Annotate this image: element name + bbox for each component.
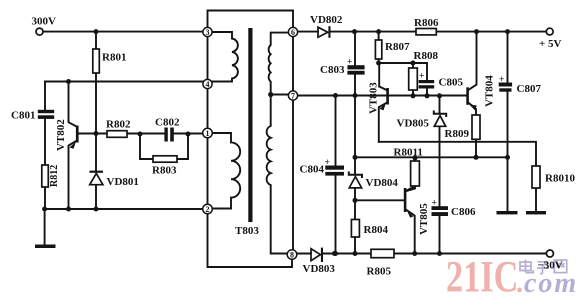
svg-text:3: 3 <box>206 28 210 37</box>
svg-text:C804: C804 <box>300 164 325 176</box>
svg-text:1: 1 <box>206 129 210 138</box>
svg-text:VT804: VT804 <box>484 75 496 107</box>
svg-text:R807: R807 <box>385 41 410 53</box>
svg-text:VD804: VD804 <box>366 177 399 189</box>
svg-text:C805: C805 <box>439 77 464 89</box>
svg-text:+: + <box>325 158 330 168</box>
svg-text:R802: R802 <box>106 119 131 131</box>
svg-text:8: 8 <box>290 251 294 260</box>
svg-text:C807: C807 <box>517 83 542 95</box>
svg-text:+: + <box>347 58 352 68</box>
svg-text:R809: R809 <box>445 128 470 140</box>
svg-text:+ 5V: + 5V <box>539 38 562 50</box>
svg-text:6: 6 <box>291 28 295 37</box>
svg-text:.: . <box>516 268 523 299</box>
svg-text:VD803: VD803 <box>303 263 336 275</box>
svg-text:C801: C801 <box>11 110 35 122</box>
svg-text:VD805: VD805 <box>397 118 430 130</box>
svg-text:C803: C803 <box>320 64 345 76</box>
svg-text:VT802: VT802 <box>55 119 67 151</box>
svg-text:R8010: R8010 <box>545 173 575 185</box>
svg-text:com: com <box>524 268 578 299</box>
svg-text:2: 2 <box>206 205 210 214</box>
svg-text:R8011: R8011 <box>394 147 423 159</box>
svg-text:300V: 300V <box>32 16 57 28</box>
svg-text:+: + <box>432 199 437 209</box>
svg-text:R803: R803 <box>152 165 177 177</box>
svg-text:R801: R801 <box>102 52 126 64</box>
svg-text:R808: R808 <box>414 50 439 62</box>
svg-text:C802: C802 <box>155 117 180 129</box>
svg-text:C806: C806 <box>451 206 476 218</box>
svg-text:+: + <box>419 72 424 82</box>
svg-text:VT805: VT805 <box>418 203 430 235</box>
svg-text:+: + <box>499 75 504 85</box>
svg-text:VD801: VD801 <box>107 176 139 188</box>
svg-text:21IC: 21IC <box>446 252 518 301</box>
svg-text:R806: R806 <box>414 17 439 29</box>
svg-text:R804: R804 <box>364 224 389 236</box>
svg-text:4: 4 <box>206 80 210 89</box>
svg-text:T803: T803 <box>235 225 259 237</box>
svg-text:R805: R805 <box>367 266 392 278</box>
svg-text:R812: R812 <box>49 165 60 187</box>
svg-text:VD802: VD802 <box>310 14 343 26</box>
svg-text:7: 7 <box>291 92 295 101</box>
svg-text:VT803: VT803 <box>368 82 380 114</box>
svg-text:−30V: −30V <box>538 260 563 272</box>
